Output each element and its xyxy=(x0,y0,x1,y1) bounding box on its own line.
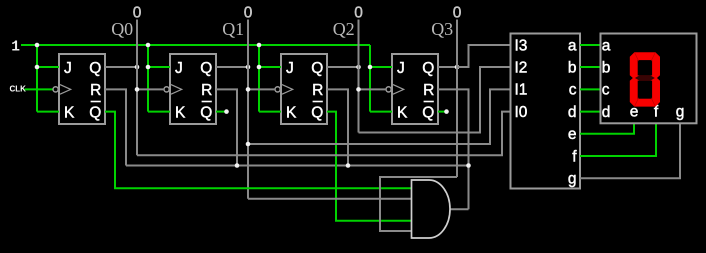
JK flip-flop U4 box xyxy=(392,54,438,124)
display digit 0 lit segments a b c d e f ring xyxy=(630,52,660,106)
svg-text:0: 0 xyxy=(133,4,142,21)
junction J feed U3 xyxy=(257,65,262,70)
svg-text:d: d xyxy=(602,104,611,121)
wire Q1 to AND input 2 xyxy=(248,198,412,200)
U4 clock edge triangle xyxy=(393,85,404,95)
wire Q0 vertical xyxy=(136,20,138,156)
svg-text:0: 0 xyxy=(453,4,462,21)
wire Q1 branch to decoder I1 xyxy=(248,89,511,144)
display segment g off xyxy=(635,75,655,80)
svg-text:g: g xyxy=(676,104,685,121)
wire net-1 to U1 K xyxy=(37,111,59,113)
wire Q2 vertical xyxy=(358,20,360,133)
wire net-1 horizontal rail y=45 xyxy=(21,44,370,46)
svg-text:Q: Q xyxy=(89,60,101,77)
svg-text:K: K xyxy=(64,104,75,121)
svg-text:J: J xyxy=(397,60,405,77)
wire U4 R to AND output riser xyxy=(438,89,469,209)
junction reset U3 xyxy=(346,163,351,168)
junction J feed U4 xyxy=(368,65,373,70)
svg-text:Q: Q xyxy=(422,104,434,121)
junction J feed U1 xyxy=(35,65,40,70)
junction J feed U2 xyxy=(146,65,151,70)
junction Q0 clock branch xyxy=(135,87,140,92)
wire segment a xyxy=(580,44,600,46)
junction net-1 at x=148 xyxy=(146,43,151,48)
junction reset rail to riser xyxy=(466,163,471,168)
svg-text:Q2: Q2 xyxy=(333,19,355,39)
svg-text:Q: Q xyxy=(200,60,212,77)
wire U2 Q to node Q1 xyxy=(216,66,248,68)
svg-text:K: K xyxy=(397,104,408,121)
wire net-1 drop to U1 xyxy=(36,45,38,112)
svg-text:c: c xyxy=(569,82,577,99)
wire net-1 to U3 J xyxy=(259,66,281,68)
junction Q2 clock branch xyxy=(356,87,361,92)
svg-text:J: J xyxy=(175,60,183,77)
svg-text:I3: I3 xyxy=(515,37,528,54)
wire U3 R down xyxy=(327,89,348,165)
svg-text:Q: Q xyxy=(200,104,212,121)
svg-text:Q0: Q0 xyxy=(111,19,133,39)
svg-text:1: 1 xyxy=(11,40,20,56)
svg-text:f: f xyxy=(572,148,577,165)
junction Q1 clock branch xyxy=(246,87,251,92)
svg-text:I0: I0 xyxy=(515,104,528,121)
junction Q1 to I1 xyxy=(246,142,251,147)
svg-text:c: c xyxy=(602,82,610,99)
wire U4 Q-bar stub xyxy=(438,111,447,113)
svg-text:K: K xyxy=(286,104,297,121)
svg-text:CLK: CLK xyxy=(10,84,27,93)
junction reset U2 xyxy=(235,163,240,168)
svg-text:d: d xyxy=(568,104,577,121)
wire Q3 vertical xyxy=(456,20,458,178)
display digit corner seam a/b xyxy=(651,52,655,61)
wire Q1 vertical xyxy=(247,20,249,199)
svg-text:R: R xyxy=(90,82,101,99)
svg-text:R: R xyxy=(312,82,323,99)
AND gate G1 xyxy=(412,180,451,238)
svg-text:Q: Q xyxy=(311,60,323,77)
JK flip-flop U3 box xyxy=(281,54,327,124)
display digit inner hole lower xyxy=(638,81,652,99)
wire Q2 to U4 clock xyxy=(359,88,387,90)
svg-text:g: g xyxy=(568,171,577,188)
display digit corner seam d/e xyxy=(634,98,638,107)
wire AND G1 output stub xyxy=(450,208,469,210)
svg-text:b: b xyxy=(568,59,577,76)
wire Q0 under circuit to decoder I0 xyxy=(137,112,511,156)
wire segment g xyxy=(580,123,680,178)
svg-text:R: R xyxy=(201,82,212,99)
wire net-1 to U1 J xyxy=(37,66,59,68)
svg-text:R: R xyxy=(423,82,434,99)
7-segment decoder U5 box xyxy=(511,34,581,189)
U4 clock bubble xyxy=(386,87,391,92)
display digit inner hole upper xyxy=(638,60,652,75)
wire net-1 drop to U2 xyxy=(147,45,149,112)
wire segment b xyxy=(580,66,600,68)
wire U4 Q to node Q3 xyxy=(438,66,457,68)
svg-text:K: K xyxy=(175,104,186,121)
svg-text:a: a xyxy=(568,37,577,54)
wire Q0 to U2 clock xyxy=(137,88,164,90)
display digit corner seam c/d xyxy=(651,98,655,107)
U2 clock edge triangle xyxy=(171,85,182,95)
svg-text:b: b xyxy=(602,59,611,76)
junction node Q3 xyxy=(455,65,460,70)
svg-text:Q: Q xyxy=(422,60,434,77)
wire net-1 to U4 J xyxy=(370,66,392,68)
wire segment e xyxy=(580,123,634,134)
svg-text:I1: I1 xyxy=(515,82,528,99)
U2 clock bubble xyxy=(164,87,169,92)
wire net-1 to U2 J xyxy=(148,66,170,68)
wire Q3 to decoder I3 xyxy=(457,45,511,67)
wire CLK to FF1 clock xyxy=(25,88,54,90)
wire segment f xyxy=(580,123,656,156)
7-segment display U6 box xyxy=(601,34,697,124)
wire U2 Q-bar stub xyxy=(216,111,227,113)
wire reset rail y=165.5 xyxy=(126,165,469,167)
svg-text:Q3: Q3 xyxy=(431,19,453,39)
svg-text:Q1: Q1 xyxy=(222,19,244,39)
wire Q3 over to AND input 4 xyxy=(380,177,457,231)
JK flip-flop U1 box xyxy=(59,54,105,124)
U3 clock bubble xyxy=(275,87,280,92)
svg-text:J: J xyxy=(286,60,294,77)
svg-text:Q: Q xyxy=(89,104,101,121)
svg-text:a: a xyxy=(602,37,611,54)
junction node Q0 xyxy=(135,65,140,70)
svg-text:I2: I2 xyxy=(515,59,528,76)
wire U1 Q to node Q0 xyxy=(105,66,137,68)
JK flip-flop U2 box xyxy=(170,54,216,124)
svg-text:Q: Q xyxy=(311,104,323,121)
svg-text:J: J xyxy=(64,60,72,77)
junction node Q2 xyxy=(356,65,361,70)
wire U1 R down xyxy=(105,89,126,165)
junction net-1 at x=259 xyxy=(257,43,262,48)
junction node Q1 xyxy=(246,65,251,70)
wire U3 Q-bar to AND input 3 xyxy=(327,112,412,221)
wire U1 Q-bar to AND input 1 xyxy=(105,112,412,189)
wire net-1 drop to U3 xyxy=(258,45,260,112)
display digit corner seam a/f xyxy=(634,52,638,61)
svg-text:e: e xyxy=(568,126,577,143)
wire net-1 to U4 K xyxy=(370,111,392,113)
U1 clock bubble xyxy=(53,87,58,92)
svg-text:0: 0 xyxy=(244,4,253,21)
wire segment d xyxy=(580,111,600,113)
U1 clock edge triangle xyxy=(60,85,71,95)
wire net-1 to U2 K xyxy=(148,111,170,113)
U3 clock edge triangle xyxy=(282,85,293,95)
svg-text:0: 0 xyxy=(354,4,363,21)
wire net-1 to U3 K xyxy=(259,111,281,113)
wire Q2 under U4 to decoder I2 xyxy=(359,67,511,133)
endpoint U2 Q-bar xyxy=(224,109,229,114)
junction net-1 at x=37 xyxy=(35,43,40,48)
wire segment c xyxy=(580,88,600,90)
wire U3 Q to node Q2 xyxy=(327,66,359,68)
wire Q1 to U3 clock xyxy=(248,88,275,90)
endpoint U4 Q-bar xyxy=(444,109,449,114)
wire net-1 drop to U4 xyxy=(369,45,371,112)
wire U2 R down xyxy=(216,89,237,165)
